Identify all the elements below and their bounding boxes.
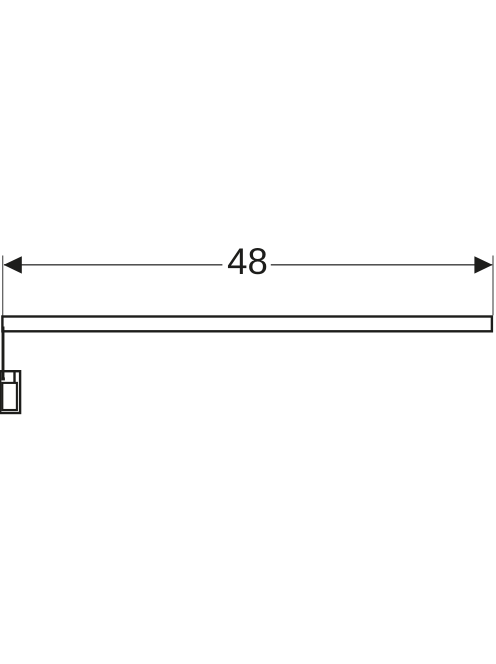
extension line left — [2, 256, 4, 316]
dimension line left segment — [4, 264, 222, 266]
arrowhead left — [4, 256, 22, 273]
arrowhead right — [474, 256, 492, 273]
clamp bracket outer — [0, 371, 20, 413]
clamp inner rect — [2, 383, 17, 410]
bar outline — [2, 317, 492, 332]
extension line right — [492, 256, 494, 316]
post foot step — [2, 377, 5, 380]
svg-text:48: 48 — [227, 241, 268, 282]
dimension line right segment — [271, 264, 492, 266]
post — [2, 327, 5, 379]
clamp divider — [13, 370, 15, 383]
